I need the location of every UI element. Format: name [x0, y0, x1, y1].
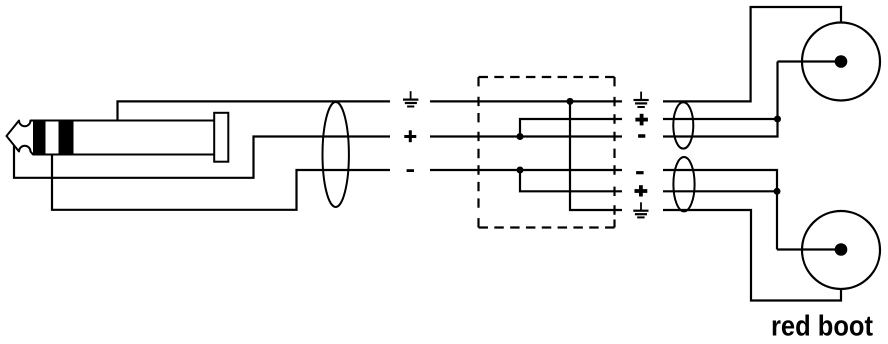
- svg-text:red boot: red boot: [771, 311, 873, 343]
- ground symbol (bottom right): [633, 202, 648, 217]
- cable shield ellipse (bottom branch): [673, 157, 694, 211]
- ground symbol (cable shield, left): [403, 91, 418, 106]
- wire: top plus branch inside box: [520, 119, 622, 137]
- plus label (left): [404, 130, 416, 142]
- wire: ring (-) step down and right: [52, 155, 390, 210]
- wire: bottom plus branch inside box: [520, 170, 622, 191]
- ground symbol (top right): [634, 92, 649, 107]
- junction dot: top RCA pin node: [774, 116, 781, 123]
- wire: tip (+) step down and right: [14, 137, 390, 178]
- wire: top plus out to RCA pin junction: [663, 62, 778, 120]
- RCA bottom center pin: [835, 243, 848, 256]
- jack tip insulator band 1: [33, 120, 46, 155]
- junction dot: shield split: [567, 98, 574, 105]
- wire: sleeve to shield (vertical from barrel top): [118, 101, 391, 120]
- wire: bottom RCA pin lead: [777, 248, 841, 250]
- wire: minus out to top RCA pin branch: [663, 119, 778, 137]
- RCA connector bottom (circle): [802, 211, 880, 289]
- junction dot: bottom RCA pin node: [774, 188, 781, 195]
- junction dot: plus split: [517, 133, 524, 140]
- wire: top RCA pin lead: [778, 60, 842, 62]
- jack plug J1 body (1/4 inch TRS stereo plug): [7, 121, 215, 155]
- RCA connector top (circle): [802, 23, 880, 101]
- minus label (left): [407, 169, 414, 172]
- cable shield ellipse (main cable): [323, 102, 349, 207]
- jack collar / bushing: [214, 113, 228, 162]
- wire: bottom plus out to RCA pin junction: [663, 190, 777, 192]
- jack ring insulator band 2: [59, 120, 74, 155]
- cable shield ellipse (top branch): [673, 102, 693, 148]
- RCA top center pin: [835, 55, 848, 68]
- wire: minus segment through junction box: [430, 169, 622, 171]
- junction box (dashed): [479, 77, 615, 228]
- junction dot: minus split: [517, 167, 524, 174]
- wire: shield branch down inside box: [570, 101, 622, 210]
- wire: shield segment to bottom RCA shell: [663, 210, 841, 301]
- minus label (top right): [638, 134, 645, 138]
- wire: plus segment through junction box: [430, 135, 622, 137]
- plus label (top right): [635, 114, 648, 126]
- plus label (bottom right): [635, 185, 648, 196]
- minus label (bottom right): [636, 171, 644, 174]
- wire: shield segment to top RCA shell: [663, 7, 841, 101]
- wire: shield segment through junction box: [430, 100, 622, 102]
- wire: minus out to bottom RCA pin branch: [663, 170, 777, 250]
